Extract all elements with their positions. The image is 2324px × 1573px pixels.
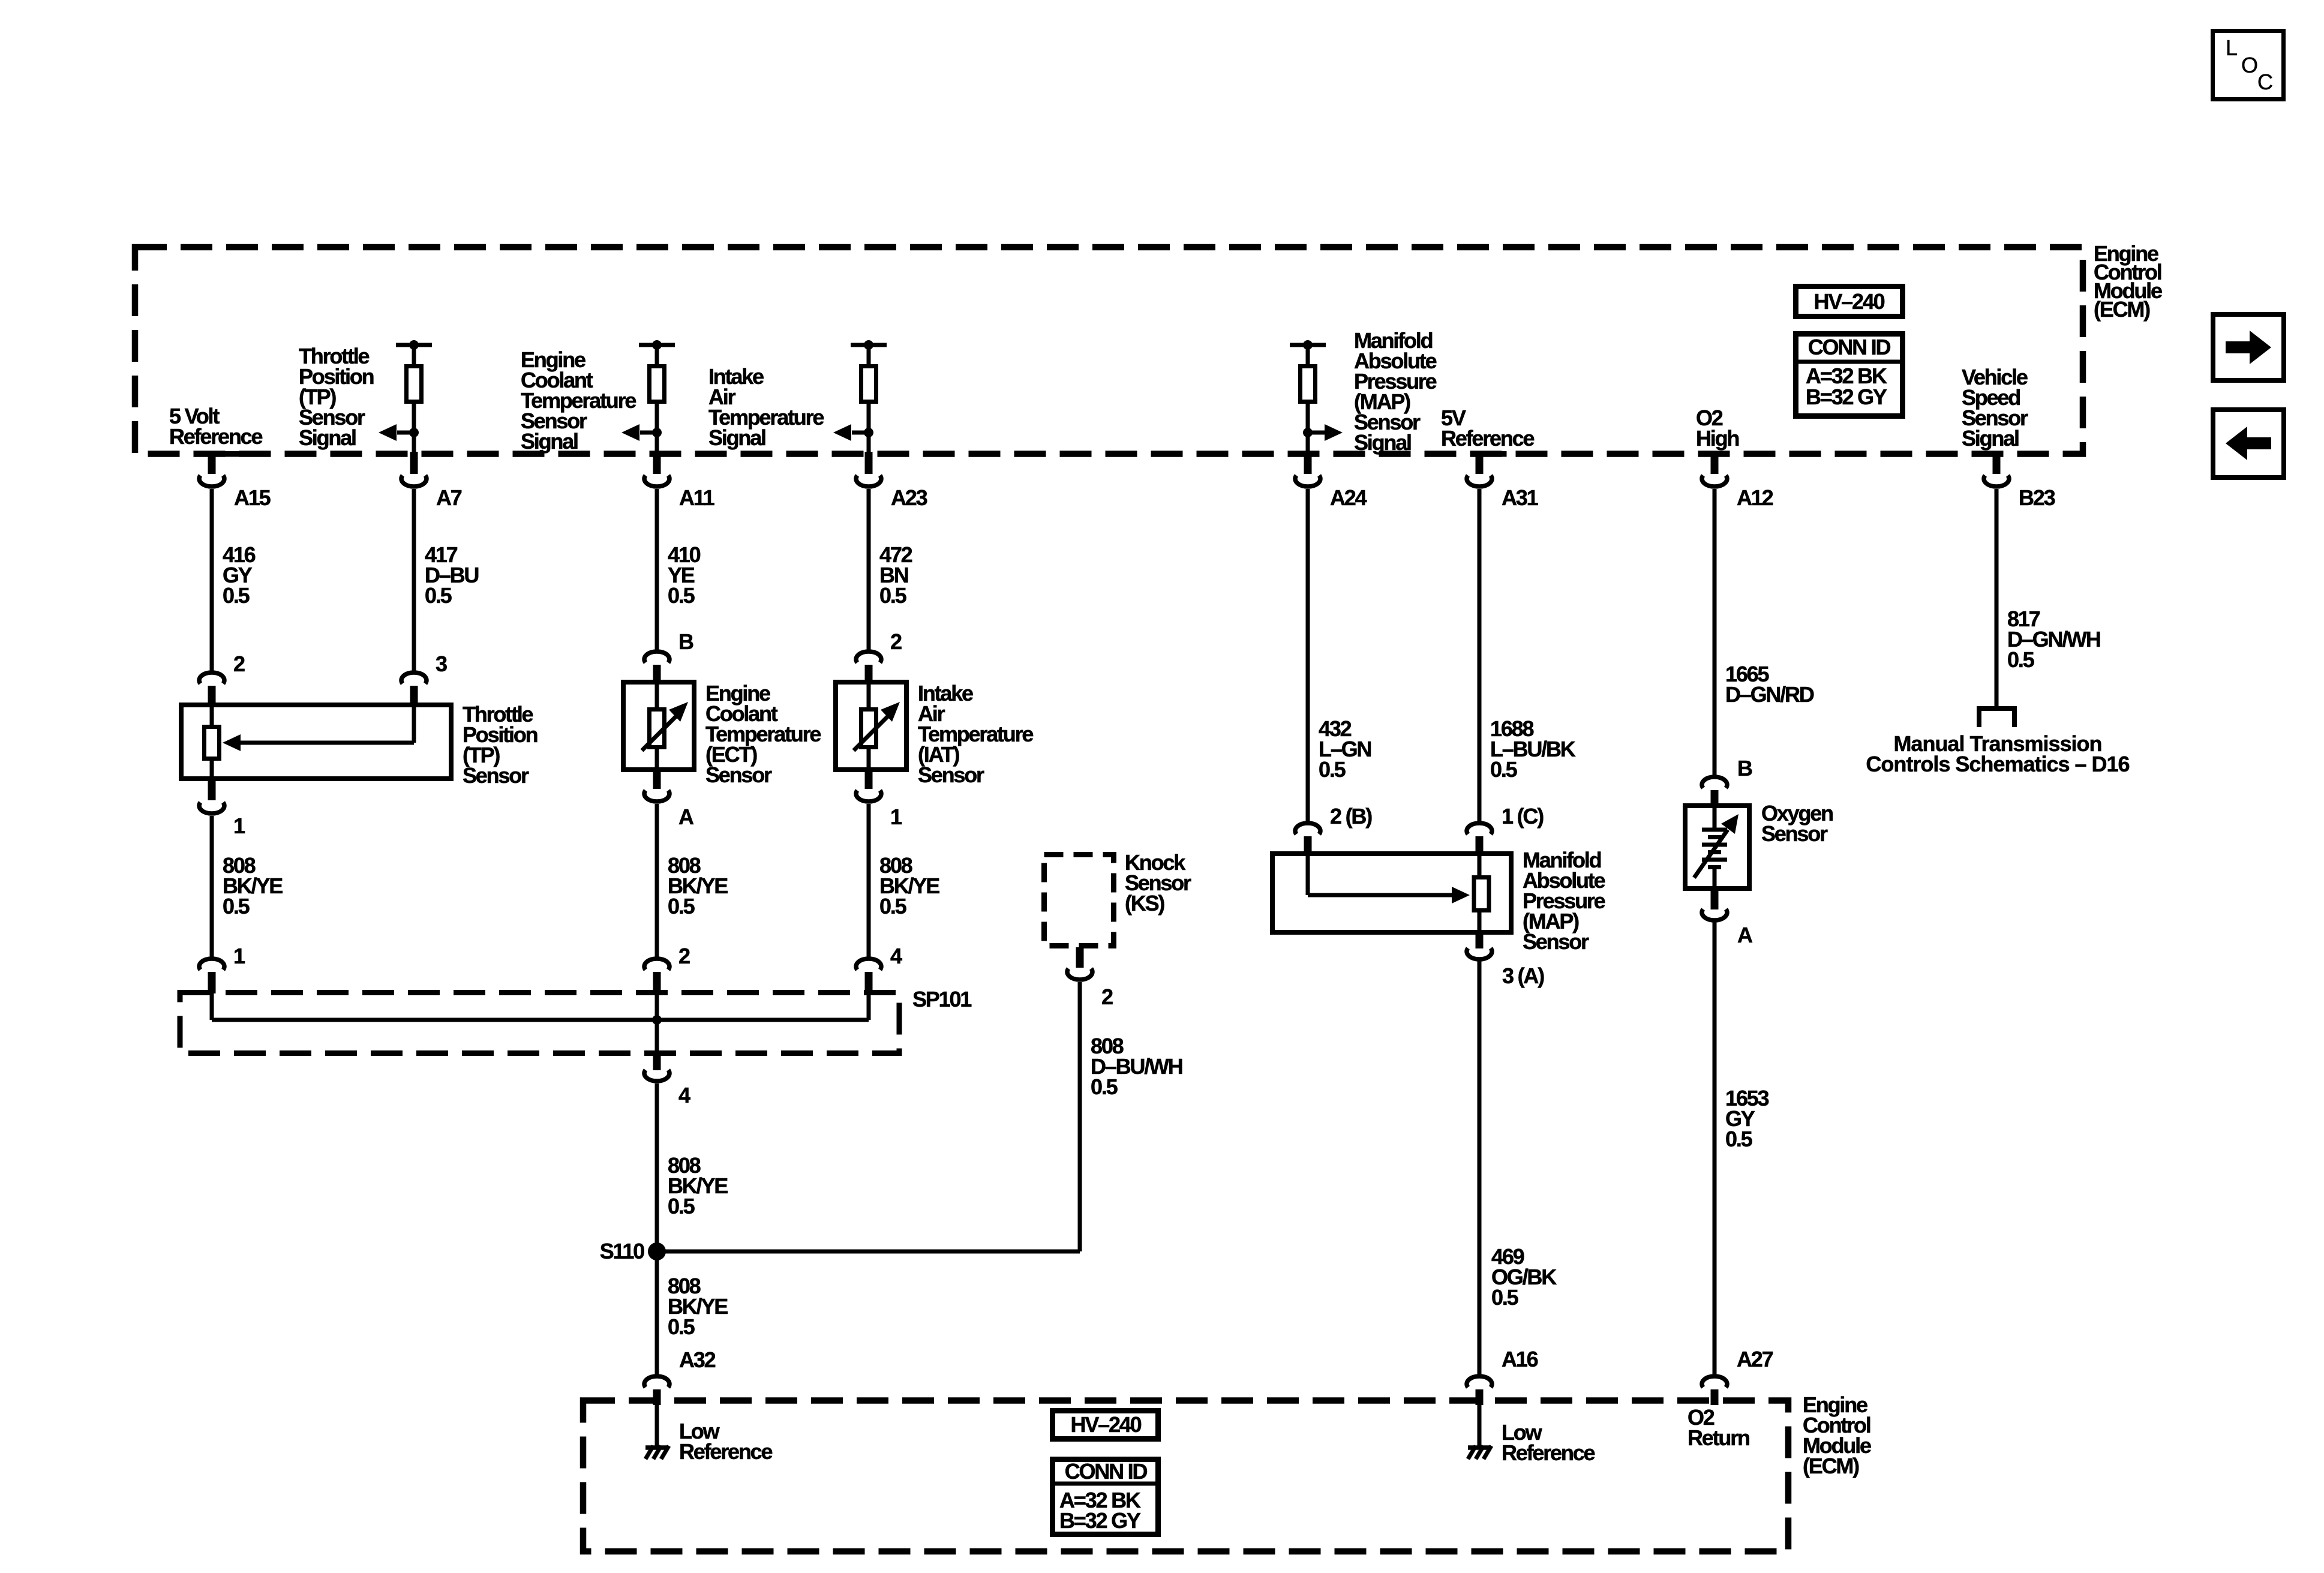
splice S110	[648, 1242, 666, 1260]
connector SP101 pin 2	[644, 959, 669, 970]
svg-text:Reference: Reference	[679, 1439, 772, 1464]
svg-text:2: 2	[890, 629, 902, 654]
resistor R TP internal pull-up	[396, 343, 432, 347]
svg-text:2: 2	[678, 944, 690, 968]
svg-text:0.5: 0.5	[668, 894, 695, 918]
svg-text:(ECM): (ECM)	[2094, 297, 2150, 322]
connector pin A11 at ECM	[653, 452, 661, 474]
wire 1665 A12 to O2 B	[1713, 489, 1717, 776]
svg-text:HV–240: HV–240	[1814, 289, 1885, 314]
svg-text:A: A	[678, 804, 694, 829]
O2 sensor element	[1713, 803, 1717, 830]
connector pin A7 at ECM	[410, 452, 418, 474]
arrow signal (points left)	[852, 431, 869, 435]
SP101 internal bus	[210, 990, 214, 1020]
svg-text:0.5: 0.5	[425, 583, 452, 608]
arrow signal (points left)	[640, 431, 657, 435]
connector IAT pin 2	[856, 652, 881, 663]
wire 808 IAT 1 to SP101	[867, 804, 871, 958]
svg-text:A7: A7	[436, 485, 462, 510]
connector pin A16	[1467, 1376, 1492, 1388]
wire 808 SP101 to S110	[655, 1083, 659, 1251]
svg-text:0.5: 0.5	[668, 1314, 695, 1339]
connector MAP pin 1 (C)	[1467, 823, 1492, 834]
connector MAP pin 3 (A)	[1476, 933, 1484, 948]
resistor R IAT internal pull-up	[851, 343, 887, 347]
svg-text:Controls Schematics – D16: Controls Schematics – D16	[1866, 752, 2129, 776]
svg-text:O: O	[2241, 53, 2258, 77]
svg-text:D–GN/RD: D–GN/RD	[1725, 682, 1814, 707]
ECM top dashed box	[135, 247, 2083, 454]
TP wiper arrow	[412, 703, 416, 743]
connector pin A12 at ECM	[1711, 452, 1719, 474]
svg-text:CONN ID: CONN ID	[1065, 1459, 1148, 1484]
svg-text:B: B	[678, 629, 693, 654]
svg-text:2 (B): 2 (B)	[1330, 804, 1372, 828]
arrow MAP signal (points right)	[1308, 431, 1325, 435]
svg-text:3 (A): 3 (A)	[1502, 963, 1544, 988]
connector TP pin 2	[199, 673, 224, 684]
IAT thermistor	[867, 680, 871, 707]
svg-text:2: 2	[233, 652, 245, 676]
svg-text:0.5: 0.5	[668, 583, 695, 608]
wire 1653 O2 A to A27	[1713, 921, 1717, 1376]
left arrow box	[2213, 410, 2284, 478]
knock sensor KS dashed box	[1044, 855, 1114, 946]
resistor R MAP internal pull-up	[1290, 343, 1326, 347]
svg-text:A32: A32	[679, 1347, 716, 1372]
MAP sensor box	[1272, 854, 1511, 932]
svg-text:1 (C): 1 (C)	[1502, 804, 1544, 828]
svg-text:A16: A16	[1502, 1347, 1538, 1371]
connector TP pin 3	[401, 673, 427, 684]
wire 469 MAP 3A to A16	[1478, 960, 1482, 1376]
connector SP101 pin 1	[199, 959, 224, 970]
svg-text:0.5: 0.5	[223, 583, 250, 608]
svg-text:CONN ID: CONN ID	[1808, 335, 1891, 359]
svg-text:High: High	[1696, 426, 1739, 451]
IAT sensor box	[836, 682, 906, 770]
svg-text:B=32 GY: B=32 GY	[1806, 385, 1887, 409]
svg-text:1: 1	[890, 804, 902, 829]
connector pin A23 at ECM	[865, 452, 873, 474]
svg-text:0.5: 0.5	[879, 894, 907, 918]
wire 416 A15 to TP pin2	[210, 489, 214, 672]
svg-text:0.5: 0.5	[668, 1194, 695, 1218]
svg-text:L: L	[2226, 35, 2238, 60]
CONN ID box top	[1796, 334, 1903, 416]
LOC reference box	[2213, 31, 2284, 100]
svg-text:C: C	[2257, 70, 2273, 94]
connector ECT pin B	[644, 652, 669, 663]
svg-text:0.5: 0.5	[1091, 1074, 1118, 1099]
connector pin A27	[1702, 1376, 1727, 1388]
connector KS pin 2	[1076, 947, 1084, 968]
svg-text:A: A	[1737, 923, 1753, 947]
connector pin A24 at ECM	[1304, 452, 1312, 474]
svg-text:Signal: Signal	[1962, 426, 2019, 451]
resistor R ECT internal pull-up	[639, 343, 675, 347]
svg-text:Return: Return	[1688, 1425, 1749, 1450]
HV-240 box top	[1796, 287, 1903, 317]
wire 817 B23 down	[1995, 489, 1999, 706]
TP sensor box	[181, 705, 451, 779]
right arrow box	[2213, 314, 2284, 380]
svg-text:3: 3	[436, 652, 447, 676]
off-page connector bracket B23	[1977, 706, 2016, 711]
svg-text:Sensor: Sensor	[918, 763, 984, 787]
svg-text:Signal: Signal	[708, 425, 765, 450]
O2 sensor box	[1685, 806, 1749, 888]
svg-text:Sensor: Sensor	[1761, 821, 1828, 846]
connector ECT pin A	[653, 771, 661, 789]
connector O2 pin A	[1711, 890, 1719, 909]
wire 417 A7 to TP pin3	[412, 489, 416, 672]
connector pin A31 at ECM	[1476, 451, 1507, 457]
svg-text:Sensor: Sensor	[1523, 929, 1589, 954]
svg-text:A27: A27	[1737, 1347, 1773, 1371]
connector pin A32	[644, 1376, 669, 1388]
svg-text:A23: A23	[891, 485, 927, 510]
svg-text:B23: B23	[2019, 485, 2055, 510]
connector MAP pin 2 (B)	[1295, 823, 1320, 834]
svg-text:4: 4	[678, 1083, 690, 1107]
wire 808 TP1 to SP101	[210, 816, 214, 958]
HV-240 box bottom	[1053, 1411, 1158, 1439]
svg-text:SP101: SP101	[912, 987, 972, 1011]
connector IAT pin 1	[865, 771, 873, 789]
svg-text:0.5: 0.5	[1490, 757, 1518, 782]
wire 808 S110 to A32	[655, 1251, 659, 1376]
ECT sensor box	[623, 682, 694, 770]
connector SP101 pin 4 top	[856, 959, 881, 970]
svg-text:0.5: 0.5	[2007, 647, 2035, 672]
svg-text:(KS): (KS)	[1125, 891, 1164, 915]
CONN ID box bottom	[1053, 1460, 1158, 1535]
svg-text:B: B	[1737, 756, 1752, 781]
svg-text:2: 2	[1101, 984, 1113, 1009]
svg-text:Signal: Signal	[521, 429, 578, 454]
TP potentiometer	[210, 703, 214, 725]
wire 410 A11 to ECT B	[655, 489, 659, 651]
svg-text:0.5: 0.5	[1319, 757, 1346, 782]
SP101 dashed box	[180, 993, 899, 1053]
connector pin B23 at ECM	[1993, 452, 2001, 474]
svg-text:S110: S110	[600, 1239, 644, 1263]
MAP potentiometer	[1306, 851, 1310, 895]
svg-text:0.5: 0.5	[879, 583, 907, 608]
svg-text:B=32 GY: B=32 GY	[1059, 1508, 1141, 1533]
svg-text:Reference: Reference	[1441, 426, 1534, 451]
connector pin A15 at ECM	[208, 451, 239, 457]
connector TP pin 1	[208, 780, 216, 800]
svg-text:Signal: Signal	[299, 425, 356, 450]
svg-text:A15: A15	[234, 485, 271, 510]
svg-text:Reference: Reference	[169, 424, 262, 449]
wire 808 D-BU/WH KS to S110	[1078, 982, 1082, 1251]
connector SP101 pin 4 bottom	[653, 1055, 661, 1070]
arrow signal (points left)	[397, 431, 414, 435]
svg-text:A31: A31	[1502, 485, 1539, 510]
svg-text:0.5: 0.5	[223, 894, 250, 918]
svg-text:A12: A12	[1737, 485, 1773, 510]
svg-text:4: 4	[890, 944, 902, 968]
ground low reference	[655, 1405, 659, 1446]
svg-text:0.5: 0.5	[1491, 1285, 1519, 1310]
wire 472 A23 to IAT 2	[867, 489, 871, 651]
svg-text:Sensor: Sensor	[705, 763, 772, 787]
wire 1688 A31 to MAP 1C	[1478, 489, 1482, 822]
svg-text:Reference: Reference	[1502, 1440, 1595, 1465]
wire 808 ECT A to SP101	[655, 804, 659, 958]
svg-text:1: 1	[233, 813, 245, 838]
connector O2 pin B	[1702, 777, 1727, 788]
wire 432 A24 to MAP 2B	[1306, 489, 1310, 822]
ground low reference	[1478, 1405, 1482, 1446]
svg-text:Signal: Signal	[1354, 430, 1411, 455]
svg-text:A24: A24	[1330, 485, 1367, 510]
ECT thermistor	[655, 680, 659, 707]
svg-text:Sensor: Sensor	[463, 763, 529, 788]
wire S110 to KS branch	[657, 1250, 1080, 1254]
ECM bottom dashed box	[583, 1401, 1788, 1552]
svg-text:0.5: 0.5	[1725, 1127, 1753, 1151]
svg-text:1: 1	[233, 944, 245, 968]
svg-text:A11: A11	[679, 485, 715, 510]
svg-text:HV–240: HV–240	[1071, 1412, 1142, 1437]
svg-text:(ECM): (ECM)	[1803, 1454, 1859, 1478]
